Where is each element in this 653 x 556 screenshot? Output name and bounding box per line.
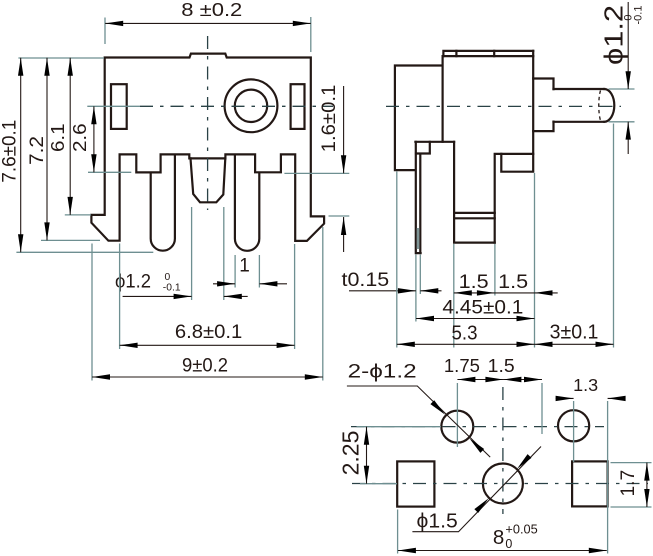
front pin 2 (round wire pin) — [235, 155, 259, 251]
footprint center hole vertical centerline — [502, 387, 504, 514]
front horizontal centerline — [87, 105, 140, 107]
dimension 9±0.2 — [92, 227, 323, 381]
dimension 7.2 — [41, 239, 100, 241]
svg-text:1.75: 1.75 — [444, 355, 480, 376]
footprint hole circle 1 — [441, 411, 473, 443]
dimension 8±0.2 (top) — [105, 17, 311, 52]
svg-text:9±0.2: 9±0.2 — [182, 355, 228, 377]
dimension 1.75 / 1.5 (footprint top) — [457, 383, 542, 447]
front right window — [291, 84, 305, 129]
dimension φ1.2 0/-0.1 (side plunger) — [609, 89, 635, 122]
svg-text:1.6±0.1: 1.6±0.1 — [319, 85, 340, 153]
svg-text:4.45±0.1: 4.45±0.1 — [442, 298, 523, 319]
svg-text:7.6±0.1: 7.6±0.1 — [0, 120, 21, 183]
svg-text:0: 0 — [165, 272, 171, 283]
svg-text:0: 0 — [505, 537, 512, 551]
dimension 1.5 1.5 (side) — [454, 173, 535, 348]
svg-text:1: 1 — [239, 256, 250, 277]
side view wire pin inner shade — [417, 228, 420, 249]
dimension 5.3 — [396, 172, 398, 348]
svg-text:1.5: 1.5 — [459, 272, 489, 293]
dimension 6.1 — [65, 214, 91, 216]
footprint center hole circle — [483, 464, 523, 504]
svg-text:ϕ1.2: ϕ1.2 — [115, 271, 151, 293]
dimension 1.3 (footprint top right) — [574, 401, 608, 554]
dimension 4.45±0.1 — [416, 318, 535, 320]
side view horizontal centerline — [386, 105, 621, 107]
side view main body right edge and bottom — [495, 51, 534, 243]
side view plunger dome dashed line — [599, 91, 601, 121]
side view rear block — [395, 66, 442, 171]
side view middle leg — [454, 142, 495, 243]
dimension 6.8±0.1 — [120, 244, 295, 350]
front view body silhouette with mounting legs — [91, 54, 324, 241]
footprint left square pad — [397, 461, 434, 506]
front center pin (tapered) — [191, 158, 226, 202]
front left window — [111, 84, 127, 129]
footprint upper row centerline — [351, 426, 604, 428]
svg-text:+0.05: +0.05 — [505, 523, 537, 537]
side view bottom-right tab — [501, 154, 533, 172]
dimension 8 +0.05/0 (footprint bottom) — [397, 510, 399, 554]
leader φ1.5 — [412, 447, 541, 532]
svg-text:t0.15: t0.15 — [342, 269, 390, 291]
side view wire pin — [416, 142, 430, 154]
front boss inner circle — [235, 90, 267, 122]
side view step block — [533, 79, 553, 132]
dimension 3±0.1 — [613, 124, 615, 348]
svg-text:2-ϕ1.2: 2-ϕ1.2 — [348, 362, 417, 383]
side view main body left edge — [442, 56, 444, 142]
svg-text:6.1: 6.1 — [48, 123, 68, 152]
svg-text:1.7: 1.7 — [618, 470, 639, 497]
svg-text:1.3: 1.3 — [573, 375, 598, 395]
svg-text:2.6: 2.6 — [70, 123, 90, 152]
footprint right square pad — [572, 461, 608, 506]
footprint lower row centerline — [352, 483, 648, 485]
dimension t0.15 (wire pin thickness) — [416, 255, 420, 322]
side view plunger — [554, 89, 605, 122]
dimension 7.6±0.1 (left) — [16, 58, 153, 252]
footprint hole circle 2 — [558, 410, 589, 441]
side view cover ticks — [456, 51, 494, 56]
svg-text:6.8±0.1: 6.8±0.1 — [175, 322, 242, 343]
dimension 1.7 (footprint right) — [611, 463, 652, 507]
side view top cover band — [443, 51, 533, 56]
svg-text:1.5: 1.5 — [488, 355, 515, 376]
svg-text:ϕ1.5: ϕ1.5 — [417, 511, 458, 533]
front boss outer circle — [225, 79, 278, 132]
dimension φ1.2 0/-0.1 (front center pin) — [192, 207, 224, 300]
leader 2-φ1.2 — [347, 386, 490, 457]
svg-text:1.5: 1.5 — [498, 272, 528, 293]
svg-text:-0.1: -0.1 — [163, 283, 181, 294]
svg-text:7.2: 7.2 — [27, 136, 48, 165]
svg-text:2.25: 2.25 — [338, 431, 364, 476]
dimension 1.6±0.1 (right of front view) — [284, 173, 349, 216]
svg-text:5.3: 5.3 — [452, 323, 478, 345]
svg-text:8: 8 — [493, 526, 504, 549]
svg-text:-0.1: -0.1 — [633, 6, 645, 25]
dimension 1 (front pin2 width) — [235, 255, 259, 288]
svg-text:3±0.1: 3±0.1 — [550, 322, 599, 344]
svg-text:8 ±0.2: 8 ±0.2 — [181, 0, 242, 20]
dimension 2.6 — [88, 171, 131, 173]
dimension 2.25 (footprint left) — [357, 427, 442, 484]
front vertical centerline — [207, 36, 209, 210]
svg-text:ϕ1.2: ϕ1.2 — [599, 5, 629, 65]
front pin 1 (round wire pin) — [151, 155, 175, 251]
side view shelf — [415, 141, 454, 143]
